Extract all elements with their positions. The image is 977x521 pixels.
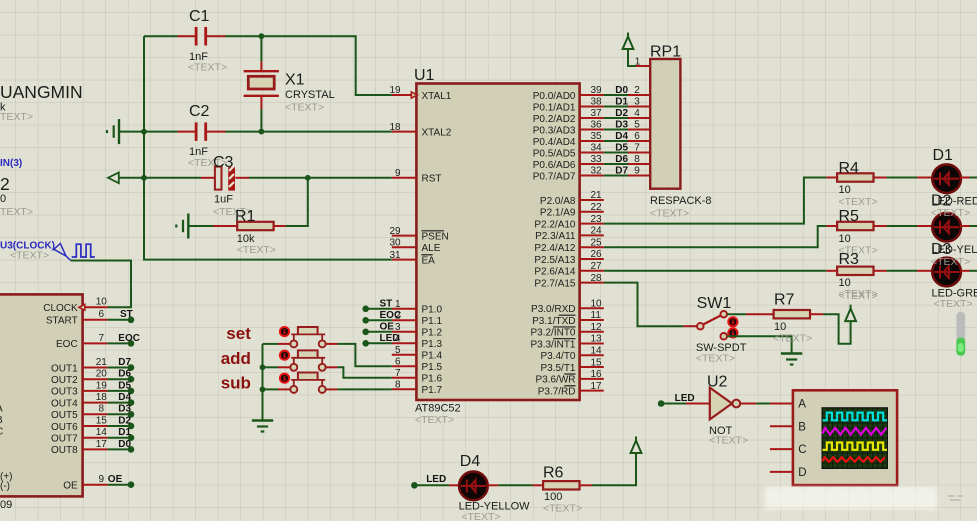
svg-text:P2.7/A15: P2.7/A15 xyxy=(534,278,576,289)
svg-text:3: 3 xyxy=(395,322,401,333)
svg-text:P3.4/T0: P3.4/T0 xyxy=(540,351,575,362)
svg-text:<TEXT>: <TEXT> xyxy=(188,62,227,74)
svg-text:8: 8 xyxy=(395,380,401,391)
svg-text:18: 18 xyxy=(389,122,401,133)
svg-text:1uF: 1uF xyxy=(214,194,233,206)
svg-text:22: 22 xyxy=(591,202,603,213)
svg-text:7: 7 xyxy=(395,368,401,379)
svg-text:6: 6 xyxy=(395,357,401,368)
svg-text:<TEXT>: <TEXT> xyxy=(237,244,276,256)
svg-text:16: 16 xyxy=(591,369,603,380)
svg-text:21: 21 xyxy=(591,190,603,201)
svg-text:CRYSTAL: CRYSTAL xyxy=(285,89,335,101)
svg-text:17: 17 xyxy=(96,439,108,450)
svg-text:R7: R7 xyxy=(774,291,795,308)
svg-text:OE: OE xyxy=(380,321,395,332)
svg-text:<TEXT>: <TEXT> xyxy=(543,503,582,515)
svg-text:P1.4: P1.4 xyxy=(422,351,443,362)
svg-text:38: 38 xyxy=(591,97,603,108)
svg-text:17: 17 xyxy=(591,381,603,392)
svg-text:10: 10 xyxy=(774,321,786,333)
svg-text:36: 36 xyxy=(591,120,603,131)
svg-text:34: 34 xyxy=(591,143,603,154)
svg-text:D5: D5 xyxy=(118,380,131,391)
svg-text:EOC: EOC xyxy=(380,310,402,321)
svg-text:0: 0 xyxy=(0,193,6,205)
svg-text:set: set xyxy=(226,324,251,343)
svg-text:P3.2/INT0: P3.2/INT0 xyxy=(530,328,575,339)
svg-text:D4: D4 xyxy=(460,453,481,470)
svg-text:P0.1/AD1: P0.1/AD1 xyxy=(533,102,576,113)
svg-text:37: 37 xyxy=(591,108,603,119)
svg-text:P0.2/AD2: P0.2/AD2 xyxy=(533,114,576,125)
svg-text:P0.5/AD5: P0.5/AD5 xyxy=(533,148,576,159)
svg-text:3: 3 xyxy=(634,97,640,108)
svg-text:P1.2: P1.2 xyxy=(422,328,443,339)
svg-text:P3.0/RXD: P3.0/RXD xyxy=(531,304,575,315)
svg-text:U1: U1 xyxy=(414,67,435,84)
svg-text:add: add xyxy=(221,349,251,368)
svg-text:12: 12 xyxy=(591,322,603,333)
svg-text:D1: D1 xyxy=(615,97,628,108)
svg-text:P1.1: P1.1 xyxy=(422,316,443,327)
svg-text:1: 1 xyxy=(395,299,401,310)
svg-text:P2.3/A11: P2.3/A11 xyxy=(535,231,576,242)
svg-text:B: B xyxy=(0,415,3,426)
svg-text:OE: OE xyxy=(108,474,123,485)
svg-text:6: 6 xyxy=(634,131,640,142)
svg-text:5: 5 xyxy=(634,120,640,131)
svg-text:21: 21 xyxy=(96,357,108,368)
svg-text:AT89C52: AT89C52 xyxy=(415,403,461,415)
svg-text:<TEXT>: <TEXT> xyxy=(934,298,973,310)
svg-text:<TEXT>: <TEXT> xyxy=(931,207,970,219)
svg-text:P0.7/AD7: P0.7/AD7 xyxy=(533,171,576,182)
svg-text:32: 32 xyxy=(591,166,603,177)
svg-text:29: 29 xyxy=(389,226,401,237)
svg-text:<TEXT>: <TEXT> xyxy=(839,290,878,302)
svg-text:D3: D3 xyxy=(118,404,131,415)
svg-text:D7: D7 xyxy=(615,166,628,177)
svg-text:<TEXT>: <TEXT> xyxy=(285,102,324,114)
svg-text:<TEXT>: <TEXT> xyxy=(931,256,970,268)
svg-text:D1: D1 xyxy=(933,147,954,164)
svg-text:EOC: EOC xyxy=(56,339,78,350)
svg-text:<TEXT>: <TEXT> xyxy=(461,511,500,521)
svg-text:A: A xyxy=(0,404,3,415)
svg-text:28: 28 xyxy=(591,273,603,284)
svg-text:P2.6/A14: P2.6/A14 xyxy=(534,267,576,278)
svg-text:<TEXT>: <TEXT> xyxy=(696,353,735,365)
svg-text:7: 7 xyxy=(634,143,640,154)
svg-text:C2: C2 xyxy=(189,103,210,120)
svg-text:LED: LED xyxy=(380,333,400,344)
svg-text:2: 2 xyxy=(0,174,10,194)
svg-text:P0.3/AD3: P0.3/AD3 xyxy=(533,125,576,136)
svg-text:OUT7: OUT7 xyxy=(51,434,78,445)
svg-text:OUT8: OUT8 xyxy=(51,445,78,456)
svg-text:XTAL1: XTAL1 xyxy=(422,91,452,102)
svg-text:P3.5/T1: P3.5/T1 xyxy=(540,363,575,374)
svg-text:ST: ST xyxy=(120,309,133,320)
svg-text:U2: U2 xyxy=(707,373,728,390)
svg-text:OUT4: OUT4 xyxy=(51,398,78,409)
svg-text:D6: D6 xyxy=(118,369,131,380)
svg-text:D7: D7 xyxy=(118,357,131,368)
svg-text:9: 9 xyxy=(99,474,105,485)
svg-text:19: 19 xyxy=(389,85,401,96)
svg-text:D2: D2 xyxy=(118,415,131,426)
svg-text:RP1: RP1 xyxy=(650,43,681,60)
svg-text:P1.7: P1.7 xyxy=(422,385,443,396)
svg-text:18: 18 xyxy=(96,392,108,403)
svg-text:CLOCK: CLOCK xyxy=(43,303,78,314)
svg-text:19: 19 xyxy=(96,380,108,391)
svg-text:A: A xyxy=(798,399,806,411)
svg-text:(-): (-) xyxy=(0,481,10,492)
svg-text:33: 33 xyxy=(591,154,603,165)
svg-text:START: START xyxy=(46,316,78,327)
svg-text:23: 23 xyxy=(591,214,603,225)
svg-text:P3.7/RD: P3.7/RD xyxy=(538,386,576,397)
svg-text:P0.0/AD0: P0.0/AD0 xyxy=(533,91,576,102)
svg-text:<TEXT>: <TEXT> xyxy=(415,414,454,426)
svg-text:9: 9 xyxy=(395,168,401,179)
svg-text:4: 4 xyxy=(634,108,640,119)
svg-text:6: 6 xyxy=(99,309,105,320)
svg-text:R1: R1 xyxy=(235,208,256,225)
svg-text:R3: R3 xyxy=(839,251,860,268)
svg-text:D4: D4 xyxy=(118,392,131,403)
svg-text:P1.5: P1.5 xyxy=(422,362,443,373)
svg-text:P2.2/A10: P2.2/A10 xyxy=(534,219,576,230)
svg-text:D5: D5 xyxy=(615,143,628,154)
svg-text:D4: D4 xyxy=(615,131,628,142)
svg-text:P1.6: P1.6 xyxy=(422,374,443,385)
svg-text:LED: LED xyxy=(426,474,446,485)
svg-text:RST: RST xyxy=(422,174,442,185)
svg-text:P3.3/INT1: P3.3/INT1 xyxy=(530,339,575,350)
svg-text:TEXT>: TEXT> xyxy=(0,111,33,123)
svg-text:R5: R5 xyxy=(839,208,860,225)
svg-text:OUT3: OUT3 xyxy=(51,387,78,398)
svg-text:IN(3): IN(3) xyxy=(0,158,22,169)
svg-text:SW1: SW1 xyxy=(697,295,732,312)
svg-text:OUT1: OUT1 xyxy=(51,363,78,374)
svg-text:C3: C3 xyxy=(213,154,234,171)
svg-text:P3.6/WR: P3.6/WR xyxy=(535,375,575,386)
svg-text:10k: 10k xyxy=(237,233,255,245)
svg-text:XTAL2: XTAL2 xyxy=(422,127,452,138)
svg-text:EOC: EOC xyxy=(118,333,140,344)
svg-text:OE: OE xyxy=(63,481,78,492)
svg-text:D2: D2 xyxy=(615,108,628,119)
svg-text:30: 30 xyxy=(389,238,401,249)
svg-text:<TEXT>: <TEXT> xyxy=(650,208,689,220)
svg-text:P2.5/A13: P2.5/A13 xyxy=(534,255,576,266)
svg-text:20: 20 xyxy=(96,369,108,380)
svg-text:X1: X1 xyxy=(285,71,305,88)
svg-text:<TEXT>: <TEXT> xyxy=(773,333,812,345)
svg-text:C: C xyxy=(798,444,806,456)
svg-text:15: 15 xyxy=(96,415,108,426)
svg-text:D6: D6 xyxy=(615,154,628,165)
svg-text:EA: EA xyxy=(422,255,436,266)
svg-text:D0: D0 xyxy=(615,85,628,96)
svg-text:P2.4/A12: P2.4/A12 xyxy=(534,243,576,254)
svg-text:25: 25 xyxy=(591,237,603,248)
svg-text:10: 10 xyxy=(96,297,108,308)
svg-text:10: 10 xyxy=(839,184,851,196)
svg-text:14: 14 xyxy=(591,345,603,356)
svg-text:24: 24 xyxy=(591,226,603,237)
svg-text:13: 13 xyxy=(591,334,603,345)
svg-text:PSEN: PSEN xyxy=(422,231,449,242)
svg-text:D3: D3 xyxy=(615,120,628,131)
svg-text:09: 09 xyxy=(0,499,12,511)
svg-text:5: 5 xyxy=(395,345,401,356)
svg-text:<TEXT>: <TEXT> xyxy=(709,435,748,447)
svg-text:P0.4/AD4: P0.4/AD4 xyxy=(533,137,576,148)
svg-text:10: 10 xyxy=(591,298,603,309)
svg-text:C1: C1 xyxy=(189,8,210,25)
svg-text:P1.3: P1.3 xyxy=(422,339,443,350)
svg-text:26: 26 xyxy=(591,249,603,260)
svg-text:P1.0: P1.0 xyxy=(422,305,443,316)
svg-text:1: 1 xyxy=(635,57,641,68)
svg-text:UANGMIN: UANGMIN xyxy=(0,82,83,102)
svg-text:P2.0/A8: P2.0/A8 xyxy=(540,196,576,207)
svg-text:10: 10 xyxy=(839,277,851,289)
svg-text:R6: R6 xyxy=(543,465,564,482)
svg-text:B: B xyxy=(798,421,806,433)
svg-text:39: 39 xyxy=(591,85,603,96)
svg-text:D: D xyxy=(798,467,806,479)
svg-text:OUT2: OUT2 xyxy=(51,375,78,386)
svg-text:ALE: ALE xyxy=(422,243,441,254)
svg-text:D1: D1 xyxy=(118,427,131,438)
svg-text:7: 7 xyxy=(99,333,105,344)
svg-text:R4: R4 xyxy=(839,160,860,177)
svg-text:31: 31 xyxy=(389,250,401,261)
svg-text:<TEXT>: <TEXT> xyxy=(839,196,878,208)
svg-text:100: 100 xyxy=(544,491,562,503)
svg-text:8: 8 xyxy=(99,404,105,415)
svg-text:P3.1/TXD: P3.1/TXD xyxy=(532,316,575,327)
svg-text:8: 8 xyxy=(634,154,640,165)
svg-text:ST: ST xyxy=(380,298,393,309)
svg-text:<TEXT>: <TEXT> xyxy=(10,250,49,262)
svg-text:2: 2 xyxy=(634,85,640,96)
svg-text:15: 15 xyxy=(591,357,603,368)
svg-text:35: 35 xyxy=(591,131,603,142)
svg-text:OUT5: OUT5 xyxy=(51,410,78,421)
svg-text:10: 10 xyxy=(839,233,851,245)
svg-text:P2.1/A9: P2.1/A9 xyxy=(540,208,576,219)
svg-text:27: 27 xyxy=(591,261,603,272)
svg-text:14: 14 xyxy=(96,427,108,438)
svg-text:RESPACK-8: RESPACK-8 xyxy=(650,195,712,207)
svg-text:sub: sub xyxy=(221,374,251,393)
svg-text:C: C xyxy=(0,427,3,438)
svg-text:TEXT>: TEXT> xyxy=(0,206,33,218)
svg-text:P0.6/AD6: P0.6/AD6 xyxy=(533,160,576,171)
svg-text:OUT6: OUT6 xyxy=(51,422,78,433)
svg-text:9: 9 xyxy=(634,166,640,177)
svg-text:D0: D0 xyxy=(118,439,131,450)
svg-text:LED: LED xyxy=(675,393,695,404)
svg-text:11: 11 xyxy=(591,310,602,321)
